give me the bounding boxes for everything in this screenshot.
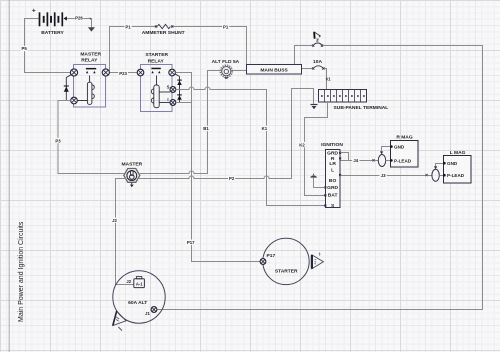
node P1 right [222,24,229,30]
wire P23 master relay to starter relay [109,72,137,74]
svg-text:BAT: BAT [328,193,338,199]
connector shell right mag [378,147,391,167]
terminal alternator J1 [151,307,157,313]
sheet border line [8,0,10,352]
wire main buss through 10A breaker to sub panel [302,68,313,70]
svg-text:STARTER: STARTER [275,268,298,274]
svg-text:R: R [331,156,335,162]
svg-text:IGNITION: IGNITION [321,142,343,148]
wire arrow into ground [89,18,92,20]
node J3 [380,172,387,178]
breaker CB2 10A [312,59,325,70]
cursor pointer [313,32,321,41]
coil [156,76,158,86]
ignition switch IGNITION [321,142,343,209]
svg-text:P23: P23 [119,71,127,76]
svg-text:GRD: GRD [327,151,338,157]
svg-text:P17: P17 [267,253,276,259]
terminal master relay coil [71,97,78,104]
wire J4 ignition R to right mag [341,153,379,162]
svg-text:60A ALT: 60A ALT [128,300,147,306]
svg-text:LR: LR [329,161,336,167]
svg-text:A-1: A-1 [136,281,143,286]
wire battery negative to master relay [25,19,71,73]
coil [89,76,91,83]
svg-text:K1: K1 [262,126,268,131]
node P5 [21,46,28,51]
svg-text:J2: J2 [126,279,131,284]
svg-text:ALT FLD 5A: ALT FLD 5A [212,59,240,65]
ammeter shunt [142,24,185,36]
wire K2 sub panel to ignition BAT [305,102,328,196]
svg-text:RELAY: RELAY [148,59,165,65]
ground ignition GRD antenna [310,174,325,188]
node P17 [186,240,196,246]
svg-text:10A: 10A [313,59,322,65]
connector alternator field plug [134,277,145,288]
svg-text:L: L [331,167,334,173]
diode D1 [64,75,71,101]
ground sub-panel [311,105,318,110]
ground battery [88,27,95,31]
svg-text:BO: BO [329,178,337,184]
wire P1 relay to ammeter shunt to main buss [106,27,156,71]
svg-text:J4: J4 [353,158,358,163]
svg-text:P1: P1 [125,25,131,30]
node J2 [111,218,118,224]
svg-text:P1: P1 [223,25,229,30]
svg-text:P-LEAD: P-LEAD [394,158,412,163]
terminal starter relay S [170,87,176,93]
node K1 [260,126,268,132]
bus MAIN BUSS [247,65,302,75]
breaker CB1 ALT FLD 5A [212,59,240,79]
wire 5A avionics feed loop [295,46,313,65]
terminal master relay left [70,69,77,76]
node P26 [75,15,84,21]
alternator 60A ALT [113,271,165,323]
svg-text:Main Power and Ignition Circui: Main Power and Ignition Circuits [18,221,25,322]
motor STARTER [263,238,309,284]
svg-text:GND: GND [394,145,405,150]
magneto L MAG [443,150,471,183]
switch S1 MASTER [121,161,142,187]
contact bar [86,68,96,70]
svg-text:SUB-PANEL TERMINAL: SUB-PANEL TERMINAL [334,105,389,111]
svg-text:MASTER: MASTER [121,161,142,167]
starter drive pinion [312,253,324,269]
svg-text:MAIN BUSS: MAIN BUSS [260,68,288,74]
node K2 [298,142,306,148]
diode D3 [177,90,182,104]
svg-text:J1: J1 [145,311,150,316]
wire B1 master switch to alt field breaker [140,71,220,174]
terminal starter relay I [170,100,176,106]
svg-text:K2: K2 [299,142,305,147]
wire battery positive to ground [67,18,92,20]
svg-text:P5: P5 [21,46,27,51]
svg-text:B1: B1 [203,126,209,131]
svg-text:GRD: GRD [327,185,338,191]
svg-text:P2: P2 [229,176,235,181]
alternator drive belt [113,311,126,331]
svg-text:S: S [167,84,170,89]
wire starter relay contact down to starter motor P17 [175,73,260,262]
svg-text:AMMETER SHUNT: AMMETER SHUNT [142,30,185,36]
magneto R MAG [390,135,418,167]
svg-text:STARTER: STARTER [145,52,168,58]
svg-text:P3: P3 [55,138,61,143]
relay U2 STARTER RELAY [141,52,173,111]
node P1 [124,24,131,30]
connector shell left mag [432,164,444,182]
node B1 [202,126,210,132]
svg-text:J2: J2 [112,218,117,223]
wire J3 ignition L to left mag [341,174,432,176]
svg-text:P26: P26 [75,16,83,21]
node J4 [352,158,359,164]
svg-text:MASTER: MASTER [80,52,101,58]
svg-text:P17: P17 [187,240,195,245]
svg-text:J3: J3 [381,173,386,178]
svg-text:I: I [167,97,168,102]
wire S terminal K1 to ignition S pin [176,87,325,206]
terminal strip SUB-PANEL TERMINAL [319,90,389,112]
svg-text:R MAG: R MAG [396,135,412,141]
wire P2 master switch to panel ground [138,89,314,179]
svg-text:#1: #1 [326,77,331,82]
terminal starter P17 [260,259,266,265]
terminal starter relay right [169,69,176,76]
svg-text:P-LEAD: P-LEAD [447,173,465,178]
wire P3 master relay coil to master switch [58,101,124,174]
svg-text:BATTERY: BATTERY [41,30,64,36]
terminal starter relay left [137,69,144,76]
svg-text:RELAY: RELAY [81,58,98,64]
terminal master relay right [102,69,109,76]
wire J2 master switch to alternator field plug [116,179,134,285]
node P23 [118,70,128,76]
battery BATTERY [32,8,67,36]
node P2 [228,176,235,182]
diode D2 [175,74,182,90]
breaker CB3 5A [312,43,323,47]
relay U1 MASTER RELAY [74,52,106,108]
svg-text:+: + [32,8,36,15]
wire I terminal to starter feed [176,102,192,104]
svg-text:GND: GND [447,161,458,166]
node P3 [54,138,61,144]
